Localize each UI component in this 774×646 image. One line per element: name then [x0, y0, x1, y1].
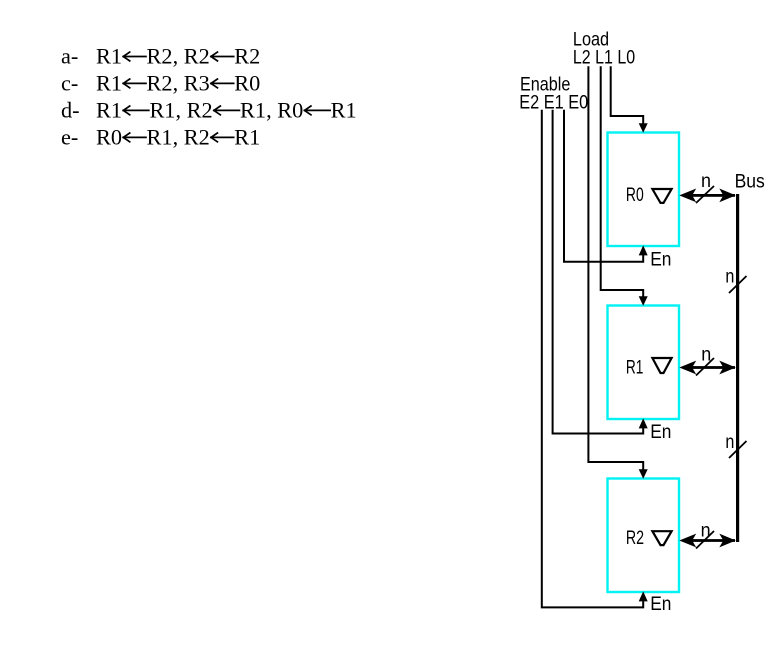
arrowhead into R0 top	[639, 123, 648, 133]
R0 arrow width slash n	[696, 186, 714, 203]
svg-text:n: n	[701, 170, 711, 192]
svg-text:R2, R3: R2, R3	[147, 71, 210, 96]
svg-text:a-: a-	[61, 44, 78, 69]
register R2 box	[608, 479, 680, 593]
svg-text:R2: R2	[234, 44, 260, 69]
svg-text:E2 E1 E0: E2 E1 E0	[519, 92, 588, 114]
arrowhead into R0 bottom En	[639, 245, 648, 255]
svg-text:R0: R0	[626, 184, 644, 206]
R1 bidirectional bus arrow	[679, 361, 736, 375]
wire E2 to R2 enable input	[542, 110, 643, 608]
svg-text:Bus: Bus	[735, 170, 765, 192]
wire L1 to R1 load input	[601, 66, 644, 299]
svg-text:n: n	[701, 519, 711, 541]
bus line	[736, 194, 739, 542]
svg-text:R1: R1	[331, 98, 357, 123]
svg-text:n: n	[725, 431, 734, 453]
bus width slash n lower	[729, 441, 747, 458]
arrowhead into R1 top	[639, 296, 648, 306]
svg-text:R0: R0	[234, 71, 260, 96]
svg-text:R1: R1	[96, 44, 122, 69]
svg-text:R1, R0: R1, R0	[240, 98, 303, 123]
register R0 box	[608, 133, 680, 247]
wire E1 to R1 enable input	[553, 110, 644, 434]
arrowhead into R2 top	[639, 469, 648, 479]
svg-text:En: En	[650, 593, 671, 615]
bus width slash n upper	[729, 276, 747, 293]
svg-text:R1: R1	[234, 125, 260, 150]
register transfer statement list	[61, 44, 357, 150]
R2 bidirectional bus arrow	[679, 534, 736, 548]
svg-text:c-: c-	[61, 71, 78, 96]
svg-text:R1, R2: R1, R2	[147, 125, 210, 150]
wire L2 to R2 load input	[588, 66, 643, 472]
svg-text:En: En	[650, 249, 671, 271]
svg-text:R0: R0	[96, 125, 122, 150]
svg-text:R1: R1	[96, 98, 122, 123]
R1 pointer triangle	[652, 358, 671, 373]
wire L0 to R0 load input	[611, 66, 644, 126]
R0 bidirectional bus arrow	[679, 189, 736, 203]
svg-text:R2, R2: R2, R2	[147, 44, 210, 69]
svg-text:R1, R2: R1, R2	[149, 98, 212, 123]
svg-text:En: En	[650, 421, 671, 443]
wire E0 to R0 enable input	[564, 110, 643, 262]
arrowhead into R2 bottom En	[639, 591, 648, 601]
svg-text:R1: R1	[626, 356, 644, 378]
R0 pointer triangle	[652, 189, 671, 203]
svg-text:n: n	[701, 343, 711, 365]
svg-text:d-: d-	[61, 98, 80, 123]
R1 arrow width slash n	[696, 358, 714, 376]
svg-text:n: n	[725, 265, 734, 287]
svg-text:L2 L1 L0: L2 L1 L0	[573, 46, 635, 68]
svg-text:R2: R2	[626, 527, 644, 549]
R2 pointer triangle	[652, 531, 671, 545]
R2 arrow width slash n	[696, 531, 714, 549]
arrowhead into R1 bottom En	[639, 418, 648, 428]
svg-text:R1: R1	[96, 71, 122, 96]
register R1 box	[608, 306, 680, 420]
svg-text:e-: e-	[61, 125, 78, 150]
